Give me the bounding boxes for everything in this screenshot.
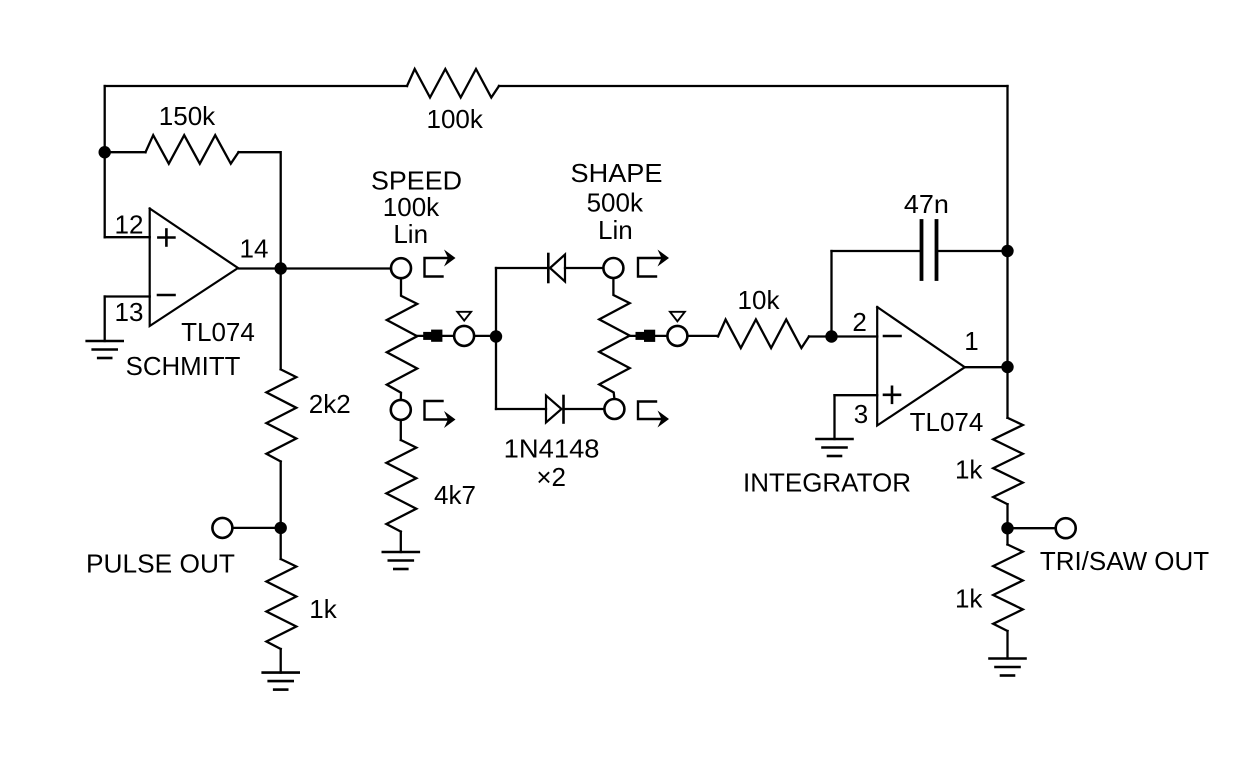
diode D2 1N4148 (bottom) bbox=[546, 396, 564, 423]
terminal SPEED pot top bbox=[391, 258, 411, 278]
wire 1k to ground bbox=[280, 649, 282, 673]
wire cap to right rail bbox=[938, 250, 1008, 252]
ground (integrator pin 3) bbox=[817, 439, 853, 456]
label 47n bbox=[904, 189, 949, 219]
svg-text:Lin: Lin bbox=[598, 215, 633, 245]
svg-text:×2: ×2 bbox=[536, 462, 566, 492]
wire pin 1 output bbox=[965, 366, 1008, 368]
wire between right 1k resistors bbox=[1006, 504, 1008, 544]
potentiometer SHAPE body bbox=[599, 278, 630, 398]
svg-text:1N4148: 1N4148 bbox=[504, 434, 600, 464]
minus sign (pin 13 inverting) bbox=[158, 294, 175, 297]
svg-text:2: 2 bbox=[852, 307, 866, 337]
label Lin (SHAPE pot) bbox=[598, 215, 633, 245]
terminal TRI/SAW OUT bbox=[1056, 518, 1076, 538]
svg-text:1k: 1k bbox=[955, 455, 983, 485]
label 100k (SPEED pot) bbox=[383, 192, 440, 222]
wiper wire SPEED bbox=[417, 335, 454, 337]
wire 10k to pin 2 bbox=[809, 335, 877, 337]
label 10k bbox=[738, 285, 781, 315]
wire 150k row left bbox=[105, 151, 146, 153]
label TRI/SAW OUT bbox=[1040, 546, 1209, 576]
wire pin 3 to ground bbox=[833, 395, 835, 439]
plus sign (pin 12 non-inverting) bbox=[158, 230, 174, 246]
label INTEGRATOR bbox=[743, 468, 911, 498]
svg-text:INTEGRATOR: INTEGRATOR bbox=[743, 468, 911, 498]
wire 150k to output node bbox=[239, 152, 281, 268]
resistor 150k (Schmitt hysteresis) bbox=[146, 135, 239, 164]
svg-text:TL074: TL074 bbox=[910, 407, 984, 437]
terminal PULSE OUT bbox=[212, 518, 232, 538]
wire pin 13 to ground bbox=[104, 297, 106, 342]
node integrator output junction bbox=[1001, 361, 1013, 373]
node integrator inverting input bbox=[825, 330, 837, 342]
label Lin (SPEED pot) bbox=[393, 219, 428, 249]
pin number 13 bbox=[115, 297, 144, 327]
label 2k2 bbox=[309, 389, 351, 419]
svg-text:TRI/SAW OUT: TRI/SAW OUT bbox=[1040, 546, 1209, 576]
ground (4k7) bbox=[383, 552, 419, 569]
svg-text:SPEED: SPEED bbox=[371, 166, 462, 196]
wiper marker triangle SPEED bbox=[457, 312, 471, 321]
wiper terminal SHAPE bbox=[667, 326, 687, 346]
wire 4k7 to ground bbox=[400, 532, 402, 552]
wiper marker triangle SHAPE bbox=[670, 312, 685, 322]
wire to TRI/SAW terminal bbox=[1008, 527, 1056, 529]
svg-text:1k: 1k bbox=[955, 584, 983, 614]
wire top diode to SHAPE top bbox=[565, 267, 603, 269]
wire SHAPE wiper to 10k bbox=[688, 335, 718, 337]
label SPEED bbox=[371, 166, 462, 196]
label 4k7 bbox=[434, 480, 476, 510]
wiper contact square SPEED bbox=[423, 330, 442, 342]
wire output node down to 2k2 bbox=[280, 269, 282, 370]
wire pin 14 output bbox=[239, 267, 391, 269]
wire left vertical to pin 12 bbox=[104, 86, 106, 237]
node pulse out junction bbox=[275, 522, 287, 534]
resistor 100k (top feedback) bbox=[407, 69, 499, 98]
op-amp U1 TL074 SCHMITT triangle bbox=[150, 209, 238, 327]
capacitor C1 47n bbox=[922, 221, 937, 279]
minus sign (pin 2 inverting) bbox=[884, 335, 901, 338]
svg-text:3: 3 bbox=[854, 399, 868, 429]
label TL074 (Schmitt) bbox=[181, 317, 255, 347]
wire pin 13 input bbox=[105, 295, 150, 297]
CW arrow icon (SPEED top) bbox=[425, 250, 456, 277]
ground (Schmitt pin 13) bbox=[87, 341, 123, 358]
svg-text:47n: 47n bbox=[904, 189, 949, 219]
svg-text:13: 13 bbox=[115, 297, 144, 327]
resistor 2k2 bbox=[266, 369, 296, 461]
svg-text:10k: 10k bbox=[738, 285, 781, 315]
node cap right rail junction bbox=[1001, 245, 1013, 257]
svg-text:150k: 150k bbox=[159, 101, 216, 131]
resistor 4k7 bbox=[386, 440, 416, 532]
wire top feedback rail left bbox=[105, 85, 407, 87]
svg-text:500k: 500k bbox=[587, 188, 644, 218]
wiper wire SHAPE bbox=[630, 335, 667, 337]
svg-text:14: 14 bbox=[240, 234, 269, 264]
wire 2k2 to pulse node bbox=[280, 462, 282, 560]
wire pulse node to terminal bbox=[233, 527, 281, 529]
wire to top diode bbox=[496, 267, 547, 269]
svg-text:12: 12 bbox=[115, 209, 144, 239]
svg-text:Lin: Lin bbox=[393, 219, 428, 249]
label 500k (SHAPE pot) bbox=[587, 188, 644, 218]
pin number 12 bbox=[115, 209, 144, 239]
wire cap feedback left bbox=[832, 250, 921, 252]
potentiometer SPEED body bbox=[387, 279, 417, 400]
label 1k (upper right) bbox=[955, 455, 983, 485]
CW arrow icon (SHAPE top) bbox=[638, 250, 669, 277]
svg-text:2k2: 2k2 bbox=[309, 389, 351, 419]
ground (TRI/SAW divider) bbox=[990, 659, 1026, 676]
wire pin 12 input bbox=[105, 236, 150, 238]
pin number 1 bbox=[964, 326, 978, 356]
svg-text:SCHMITT: SCHMITT bbox=[126, 351, 241, 381]
node Schmitt output junction bbox=[275, 262, 287, 274]
CCW arrow icon (SPEED bottom) bbox=[425, 401, 456, 428]
pin number 3 bbox=[854, 399, 868, 429]
resistor 10k bbox=[718, 320, 809, 349]
op-amp U2 TL074 INTEGRATOR triangle bbox=[877, 307, 965, 426]
label TL074 (integrator) bbox=[910, 407, 984, 437]
pin number 14 bbox=[240, 234, 269, 264]
terminal SPEED pot bottom bbox=[391, 400, 411, 420]
wiper terminal SPEED bbox=[454, 326, 474, 346]
node TRI/SAW out junction bbox=[1001, 522, 1013, 534]
terminal SHAPE pot bottom bbox=[604, 399, 624, 419]
wire bottom diode to SHAPE bottom bbox=[564, 408, 605, 410]
pin number 2 bbox=[852, 307, 866, 337]
plus sign (pin 3 non-inverting) bbox=[884, 387, 900, 403]
label 1k (lower right) bbox=[955, 584, 983, 614]
label PULSE OUT bbox=[86, 549, 235, 579]
svg-text:SHAPE: SHAPE bbox=[571, 158, 663, 188]
svg-text:PULSE OUT: PULSE OUT bbox=[86, 549, 235, 579]
label x2 bbox=[536, 462, 566, 492]
terminal SHAPE pot top bbox=[603, 258, 623, 278]
svg-text:TL074: TL074 bbox=[181, 317, 255, 347]
label 1N4148 bbox=[504, 434, 600, 464]
node junction at 150k tap bbox=[99, 146, 111, 158]
label SHAPE bbox=[571, 158, 663, 188]
label SCHMITT bbox=[126, 351, 241, 381]
svg-text:1: 1 bbox=[964, 326, 978, 356]
wire SPEED wiper to junction bbox=[474, 335, 496, 337]
wire lower 1k to ground bbox=[1006, 631, 1008, 659]
node SPEED wiper junction bbox=[490, 330, 502, 342]
label 1k (pulse divider) bbox=[309, 594, 337, 624]
wire pin 3 input bbox=[835, 394, 878, 396]
wire top feedback rail right bbox=[499, 85, 1008, 87]
wire diode bridge vertical bbox=[495, 268, 497, 409]
diode D1 1N4148 (top) bbox=[548, 254, 565, 282]
label 100k bbox=[427, 104, 484, 134]
wire to bottom diode bbox=[496, 408, 546, 410]
ground (pulse divider) bbox=[263, 673, 299, 690]
wiper contact square SHAPE bbox=[636, 330, 656, 342]
CCW arrow icon (SHAPE bottom) bbox=[638, 402, 669, 428]
svg-text:1k: 1k bbox=[309, 594, 337, 624]
wire cap feedback up bbox=[830, 251, 832, 337]
wire right rail top bbox=[1006, 86, 1008, 418]
resistor 1k (upper right) bbox=[993, 418, 1023, 504]
svg-text:4k7: 4k7 bbox=[434, 480, 476, 510]
resistor 1k (lower right) bbox=[993, 545, 1023, 632]
svg-text:100k: 100k bbox=[427, 104, 484, 134]
label 150k bbox=[159, 101, 216, 131]
svg-text:100k: 100k bbox=[383, 192, 440, 222]
wire SPEED bottom to 4k7 bbox=[400, 420, 402, 440]
resistor 1k (pulse divider) bbox=[266, 559, 296, 649]
